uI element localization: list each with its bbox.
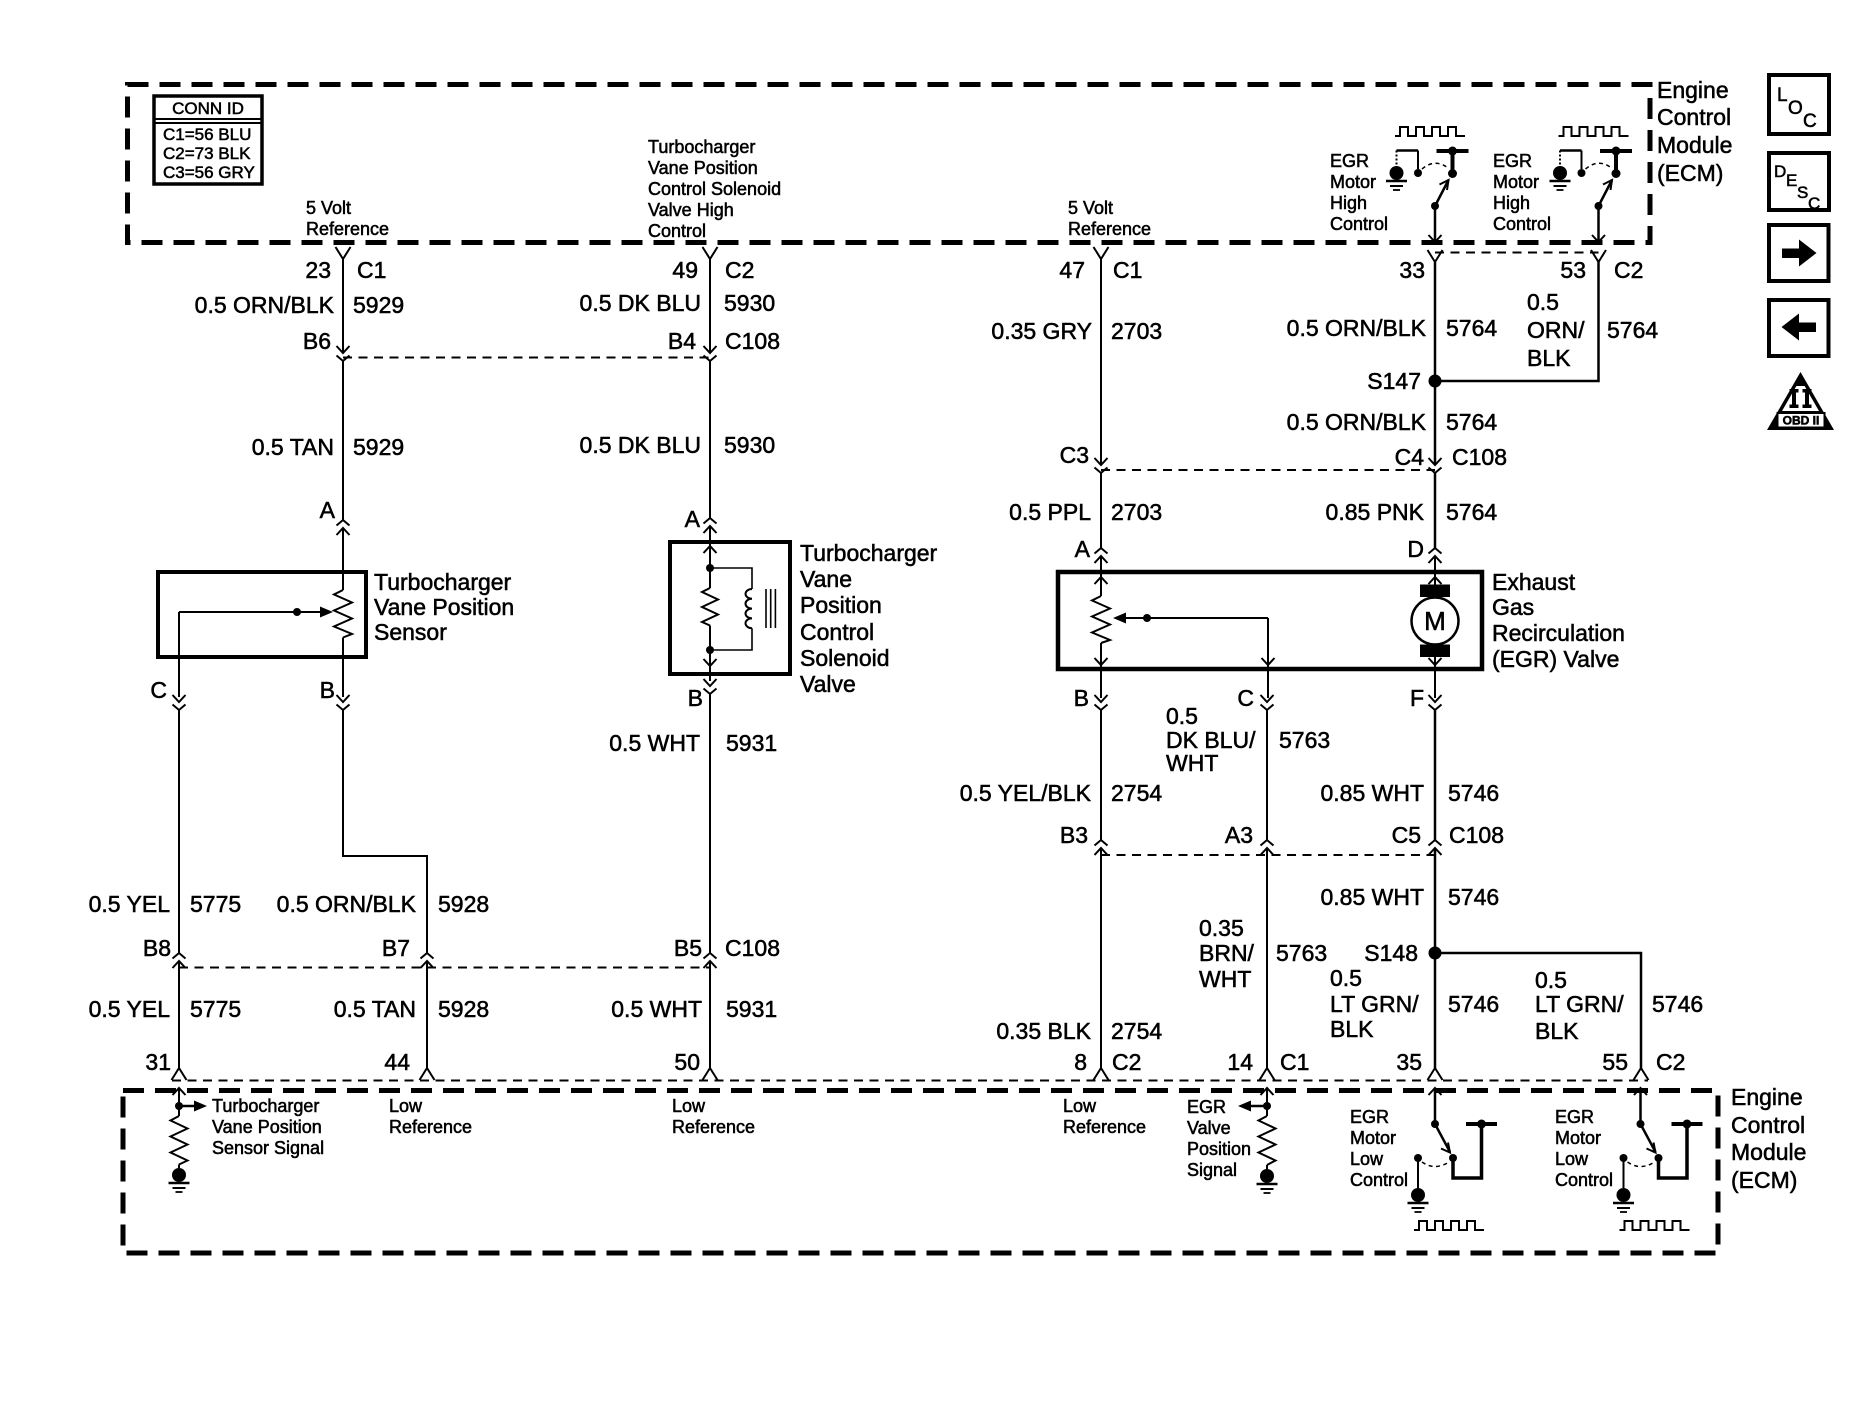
svg-text:S: S (1797, 183, 1808, 202)
svg-text:5764: 5764 (1446, 409, 1497, 435)
resistor: EGR position sensing element (1092, 596, 1110, 643)
wire label 0.5 DK BLU 5930 (lower) (580, 432, 776, 458)
svg-text:OBD II: OBD II (1783, 414, 1820, 428)
svg-text:0.5: 0.5 (1330, 965, 1362, 991)
svg-text:0.5: 0.5 (1166, 703, 1198, 729)
svg-text:0.85 WHT: 0.85 WHT (1320, 780, 1424, 806)
svg-text:0.5 YEL: 0.5 YEL (89, 996, 171, 1022)
svg-text:Gas: Gas (1492, 594, 1534, 620)
switch: EGR Motor Low Control driver (pin 35) (1408, 1088, 1498, 1230)
svg-text:Control Solenoid: Control Solenoid (648, 179, 781, 199)
svg-text:5931: 5931 (726, 996, 777, 1022)
wire 5746 WHT EGR F to C5 (1434, 710, 1437, 840)
pin label 55 C2 (1602, 1049, 1685, 1075)
terminal B of EGR valve (1095, 695, 1108, 710)
pin 47 C1 connector (1094, 247, 1109, 259)
splice label S147 (1367, 368, 1421, 394)
svg-text:C: C (1803, 111, 1817, 132)
svg-text:WHT: WHT (1166, 750, 1218, 776)
pin label 53 C2 (1560, 257, 1643, 283)
svg-text:C: C (150, 677, 167, 703)
svg-text:0.85 WHT: 0.85 WHT (1320, 884, 1424, 910)
terminal B of sensor (337, 695, 350, 710)
svg-text:D: D (1407, 536, 1424, 562)
terminal A of sensor (337, 520, 350, 535)
svg-text:C1: C1 (1113, 257, 1142, 283)
svg-text:5775: 5775 (190, 996, 241, 1022)
pin 49 C2 connector (703, 247, 718, 259)
svg-text:Motor: Motor (1555, 1128, 1601, 1148)
resistor: pin 31 pull-up (171, 1116, 188, 1165)
pin label 47 C1 (1059, 257, 1142, 283)
svg-text:C3=56 GRY: C3=56 GRY (163, 163, 255, 182)
label: Low Reference (pin 8) (1063, 1096, 1146, 1137)
wiper of sensor potentiometer (179, 607, 333, 618)
svg-text:0.5 TAN: 0.5 TAN (334, 996, 416, 1022)
svg-text:0.5 WHT: 0.5 WHT (611, 996, 702, 1022)
svg-text:0.5 DK BLU: 0.5 DK BLU (580, 290, 701, 316)
svg-text:Sensor: Sensor (374, 619, 447, 645)
wire 5931 WHT B5 to pin 50 (709, 961, 711, 1068)
svg-text:B3: B3 (1060, 822, 1088, 848)
svg-text:0.5 ORN/BLK: 0.5 ORN/BLK (277, 891, 417, 917)
svg-text:Low: Low (1350, 1149, 1384, 1169)
svg-text:(EGR) Valve: (EGR) Valve (1492, 646, 1619, 672)
wire 5775 YEL sensor C to B8 (178, 710, 180, 953)
svg-text:5746: 5746 (1448, 780, 1499, 806)
svg-text:A: A (685, 506, 701, 532)
connector label B4 C108 (668, 328, 780, 354)
svg-text:Control: Control (800, 619, 874, 645)
wire 2703 PPL C3 to EGR A (1100, 473, 1102, 548)
label: Low Reference (pin 44) (389, 1096, 472, 1137)
svg-text:49: 49 (672, 257, 698, 283)
svg-text:44: 44 (384, 1049, 410, 1075)
svg-text:Low: Low (672, 1096, 706, 1116)
pin 14 connector (1260, 1068, 1275, 1080)
svg-text:Control: Control (648, 221, 706, 241)
label: Engine Control Module (ECM) bottom right (1731, 1084, 1806, 1193)
svg-text:Position: Position (800, 592, 882, 618)
svg-text:5764: 5764 (1446, 499, 1497, 525)
label: EGR Motor Low Control (pin 55) (1555, 1107, 1613, 1190)
svg-text:Exhaust: Exhaust (1492, 569, 1576, 595)
wire EGR A internal (1095, 556, 1108, 596)
svg-text:B8: B8 (143, 935, 171, 961)
wire 2754 BLK B3 to pin 8 (1100, 848, 1102, 1068)
wire label 0.5 DK BLU/WHT 5763 (1166, 703, 1330, 776)
svg-text:8: 8 (1074, 1049, 1087, 1075)
svg-text:Engine: Engine (1731, 1084, 1803, 1110)
connector C108 B8 (173, 953, 186, 968)
svg-text:Signal: Signal (1187, 1160, 1237, 1180)
svg-text:BLK: BLK (1527, 345, 1571, 371)
svg-text:50: 50 (674, 1049, 700, 1075)
svg-text:EGR: EGR (1350, 1107, 1389, 1127)
svg-text:C1=56 BLU: C1=56 BLU (163, 125, 251, 144)
svg-text:B: B (688, 685, 703, 711)
component box: Turbocharger Vane Position Sensor (158, 572, 366, 657)
svg-text:C: C (1237, 685, 1254, 711)
connector label B7 (382, 935, 410, 961)
wire 5764 PNK C4 to EGR D (1434, 473, 1437, 548)
connector C108 dashed link B6-B4 (343, 357, 710, 359)
wire label 0.5 YEL 5775 (lower) (89, 996, 242, 1022)
wire label 0.5 LT GRN/BLK 5746 (pin 55) (1535, 967, 1703, 1044)
svg-text:5746: 5746 (1448, 991, 1499, 1017)
svg-text:55: 55 (1602, 1049, 1628, 1075)
svg-text:B7: B7 (382, 935, 410, 961)
svg-text:L: L (1777, 85, 1788, 106)
svg-text:LT GRN/: LT GRN/ (1535, 991, 1624, 1017)
svg-text:High: High (1330, 193, 1367, 213)
icon: OBD II triangle (1767, 372, 1834, 430)
switch: EGR Motor High Control driver (pin 33) (1386, 127, 1469, 242)
wire into sensor A (342, 528, 344, 590)
svg-text:Reference: Reference (1068, 219, 1151, 239)
label: EGR Motor Low Control (pin 35) (1350, 1107, 1408, 1190)
svg-text:Reference: Reference (672, 1117, 755, 1137)
svg-text:Vane Position: Vane Position (374, 594, 514, 620)
wire label 0.5 WHT 5931 (lower) (611, 996, 777, 1022)
splice S147 (1429, 375, 1442, 388)
wire label 0.85 WHT 5746 (lower) (1320, 884, 1499, 910)
connector label B8 (143, 935, 171, 961)
wire label 0.5 YEL/BLK 2754 (960, 780, 1163, 806)
switch: EGR Motor High Control driver (pin 53) (1550, 127, 1633, 242)
svg-text:5775: 5775 (190, 891, 241, 917)
svg-text:Position: Position (1187, 1139, 1251, 1159)
wire solenoid to terminal B (704, 650, 717, 681)
svg-text:M: M (1424, 606, 1446, 636)
terminal B of solenoid valve (704, 679, 717, 694)
wire EGR wiper to terminal C (1262, 618, 1275, 698)
icon: DESC box (1769, 153, 1829, 213)
svg-text:Engine: Engine (1657, 77, 1729, 103)
connector C108 B4 (704, 346, 717, 361)
resistor: solenoid internal (702, 568, 718, 650)
svg-text:Control: Control (1731, 1112, 1805, 1138)
terminal label A (solenoid) (685, 506, 701, 532)
pin label 49 C2 (672, 257, 754, 283)
wire sensor wiper to terminal C (178, 612, 180, 697)
resistor: sensor element (334, 590, 352, 638)
svg-text:0.5 PPL: 0.5 PPL (1009, 499, 1091, 525)
svg-text:C3: C3 (1060, 442, 1089, 468)
svg-text:Reference: Reference (389, 1117, 472, 1137)
svg-text:B6: B6 (303, 328, 331, 354)
svg-text:BLK: BLK (1535, 1018, 1579, 1044)
splice S148 (1429, 947, 1442, 960)
connector C108 dashed link B8-B7-B5 (179, 967, 710, 969)
connector label A3 (1225, 822, 1253, 848)
svg-text:5746: 5746 (1652, 991, 1703, 1017)
wire 5763 BRN/WHT A3 to pin 14 (1266, 848, 1268, 1068)
ground at pin 31 resistor (169, 1165, 190, 1193)
label: Turbocharger Vane Position Control Solenoid Valve (800, 540, 938, 697)
svg-text:Valve High: Valve High (648, 200, 734, 220)
wire label 0.5 YEL 5775 (upper) (89, 891, 242, 917)
svg-text:5929: 5929 (353, 292, 404, 318)
svg-text:C2=73 BLK: C2=73 BLK (163, 144, 251, 163)
terminal C of sensor (173, 695, 186, 710)
pin 31 connector (172, 1068, 187, 1080)
wire 5930 DK BLU pin49 to B4 (709, 259, 711, 353)
svg-text:Turbocharger: Turbocharger (374, 569, 512, 595)
svg-text:EGR: EGR (1493, 151, 1532, 171)
connector C108 B3 (1095, 840, 1108, 855)
connector label B6 (303, 328, 331, 354)
terminal label F (EGR) (1410, 685, 1424, 711)
wire 5763 DK BLU/WHT EGR C to A3 (1266, 710, 1268, 840)
connector label C4 C108 (1395, 444, 1507, 470)
wire 5928 TAN B7 to pin 44 (426, 961, 428, 1068)
connector C108 dashed link B3-A3-C5 (1101, 854, 1435, 856)
svg-text:5 Volt: 5 Volt (1068, 198, 1113, 218)
svg-text:E: E (1786, 171, 1797, 190)
pin label 35 (1396, 1049, 1422, 1075)
svg-text:S147: S147 (1367, 368, 1421, 394)
wire label 0.5 DK BLU 5930 (upper) (580, 290, 776, 316)
wire label 0.5 PPL 2703 (1009, 499, 1162, 525)
wire label 0.5 ORN/BLK 5929 (195, 292, 405, 318)
pin label 33 (1399, 257, 1425, 283)
motor M of EGR valve (1412, 556, 1459, 698)
connector C108 C3 (1095, 458, 1108, 473)
svg-text:Turbocharger: Turbocharger (800, 540, 938, 566)
svg-text:B5: B5 (674, 935, 702, 961)
wire 2754 YEL/BLK EGR B to B3 (1100, 710, 1102, 840)
svg-text:D: D (1774, 162, 1786, 181)
svg-text:B: B (320, 677, 335, 703)
svg-text:Motor: Motor (1350, 1128, 1396, 1148)
svg-text:Reference: Reference (306, 219, 389, 239)
svg-text:5764: 5764 (1446, 315, 1497, 341)
svg-text:Module: Module (1657, 132, 1732, 158)
pin label 14 C1 (1227, 1049, 1309, 1075)
svg-text:5764: 5764 (1607, 317, 1658, 343)
svg-text:A: A (1075, 536, 1091, 562)
ECM input: EGR Valve Position Signal (pin 14) (1238, 1088, 1274, 1116)
svg-text:C108: C108 (725, 935, 780, 961)
pin 8 connector (1094, 1068, 1109, 1080)
svg-text:C108: C108 (1452, 444, 1507, 470)
svg-text:2754: 2754 (1111, 780, 1162, 806)
wire label 0.35 BLK 2754 (996, 1018, 1162, 1044)
svg-text:BLK: BLK (1330, 1016, 1374, 1042)
svg-text:35: 35 (1396, 1049, 1422, 1075)
svg-text:5763: 5763 (1276, 940, 1327, 966)
wire label 0.35 GRY 2703 (991, 318, 1162, 344)
wire label 0.5 TAN 5928 (334, 996, 489, 1022)
ground at pin 14 resistor (1257, 1165, 1278, 1193)
pin label 23 C1 (305, 257, 386, 283)
connector C108 B7 (421, 953, 434, 968)
icon: LOC box (1769, 75, 1829, 134)
svg-text:Vane Position: Vane Position (212, 1117, 322, 1137)
svg-text:LT GRN/: LT GRN/ (1330, 991, 1419, 1017)
terminal label C (EGR) (1237, 685, 1254, 711)
connector label C3 (1060, 442, 1089, 468)
svg-text:S148: S148 (1364, 940, 1418, 966)
label: EGR Valve Position Signal (1187, 1097, 1251, 1180)
ECM top dashed box (128, 85, 1651, 243)
svg-text:0.5 ORN/BLK: 0.5 ORN/BLK (1287, 409, 1427, 435)
label: Turbocharger Vane Position Sensor (374, 569, 514, 645)
connector C108 B5 (704, 953, 717, 968)
ECM bottom dashed box (123, 1091, 1718, 1254)
bottom connector dashed link (172, 1080, 1648, 1082)
connector C108 dashed link C3-C4 (1101, 469, 1435, 471)
svg-text:Recirculation: Recirculation (1492, 620, 1625, 646)
svg-text:0.5: 0.5 (1527, 289, 1559, 315)
component box: Exhaust Gas Recirculation (EGR) Valve (1058, 572, 1482, 669)
svg-text:0.5 YEL/BLK: 0.5 YEL/BLK (960, 780, 1092, 806)
svg-text:Low: Low (389, 1096, 423, 1116)
wire sensor resistor to terminal B (342, 638, 344, 698)
svg-text:Turbocharger: Turbocharger (648, 137, 755, 157)
svg-text:0.5 DK BLU: 0.5 DK BLU (580, 432, 701, 458)
pin 35 connector (1428, 1068, 1443, 1080)
pin label 8 C2 (1074, 1049, 1141, 1075)
connector C2 dashed link 33-53 (1435, 252, 1599, 254)
wire 5775 YEL B8 to pin 31 (178, 961, 180, 1068)
wire 5746 LT GRN/BLK S148 to pin 55 (1435, 953, 1641, 1068)
svg-text:C: C (1808, 194, 1820, 213)
svg-text:Control: Control (1555, 1170, 1613, 1190)
switch: EGR Motor Low Control driver (pin 55) (1613, 1088, 1703, 1230)
svg-text:5930: 5930 (724, 432, 775, 458)
svg-text:B4: B4 (668, 328, 696, 354)
svg-text:5 Volt: 5 Volt (306, 198, 351, 218)
svg-text:Control: Control (1330, 214, 1388, 234)
svg-text:0.5 ORN/BLK: 0.5 ORN/BLK (1287, 315, 1427, 341)
icon: forward arrow box (1769, 225, 1829, 281)
svg-text:C2: C2 (1112, 1049, 1141, 1075)
wire label 0.85 PNK 5764 (1326, 499, 1498, 525)
svg-text:EGR: EGR (1330, 151, 1369, 171)
svg-text:C2: C2 (1614, 257, 1643, 283)
svg-text:F: F (1410, 685, 1424, 711)
svg-text:14: 14 (1227, 1049, 1253, 1075)
svg-text:2754: 2754 (1111, 1018, 1162, 1044)
svg-text:Control: Control (1493, 214, 1551, 234)
svg-text:Motor: Motor (1493, 172, 1539, 192)
connector label C5 C108 (1392, 822, 1504, 848)
svg-text:0.35 GRY: 0.35 GRY (991, 318, 1092, 344)
svg-text:High: High (1493, 193, 1530, 213)
svg-text:2703: 2703 (1111, 318, 1162, 344)
svg-text:Control: Control (1657, 104, 1731, 130)
terminal A of solenoid valve (704, 518, 717, 533)
connector label B3 (1060, 822, 1088, 848)
resistor: pin 14 pull-up (1259, 1116, 1276, 1165)
inductor: solenoid coil with core (706, 568, 775, 654)
svg-text:C2: C2 (1656, 1049, 1685, 1075)
svg-text:Vane Position: Vane Position (648, 158, 758, 178)
svg-text:(ECM): (ECM) (1657, 160, 1723, 186)
svg-text:5931: 5931 (726, 730, 777, 756)
wire 5931 WHT solenoid B to B5 (709, 694, 711, 953)
svg-text:5928: 5928 (438, 996, 489, 1022)
svg-text:C1: C1 (357, 257, 386, 283)
svg-text:EGR: EGR (1555, 1107, 1594, 1127)
svg-text:ORN/: ORN/ (1527, 317, 1585, 343)
wire label 0.5 ORN/BLK 5764 (upper) (1287, 315, 1498, 341)
wire label 0.5 ORN/BLK 5764 (lower) (1287, 409, 1498, 435)
wire 53 ORN/BLK to S147 (1435, 262, 1599, 381)
wire 5929 TAN B6 to sensor A (342, 361, 344, 520)
svg-text:0.5 ORN/BLK: 0.5 ORN/BLK (195, 292, 335, 318)
svg-text:Low: Low (1555, 1149, 1589, 1169)
label: Turbocharger Vane Position Sensor Signal (212, 1096, 324, 1158)
wire label 0.85 WHT 5746 (upper) (1320, 780, 1499, 806)
label: Turbocharger Vane Position Control Solenoid Valve High Control (648, 137, 781, 241)
label: EGR Motor High Control (right) (1493, 151, 1551, 234)
svg-text:Sensor Signal: Sensor Signal (212, 1138, 324, 1158)
svg-text:A: A (320, 497, 336, 523)
terminal label D (EGR) (1407, 536, 1424, 562)
svg-text:31: 31 (145, 1049, 171, 1075)
svg-text:Motor: Motor (1330, 172, 1376, 192)
terminal label A (EGR) (1075, 536, 1091, 562)
svg-text:O: O (1788, 98, 1803, 119)
wiper of EGR potentiometer (1113, 613, 1268, 624)
splice label S148 (1364, 940, 1418, 966)
pin 33 connector (1428, 250, 1443, 262)
pin 23 C1 connector (336, 247, 351, 259)
svg-text:0.5: 0.5 (1535, 967, 1567, 993)
svg-text:23: 23 (305, 257, 331, 283)
wire 5764 ORN/BLK S147 to C4 (1434, 381, 1437, 465)
terminal A of EGR valve (1095, 548, 1108, 563)
wire 33 ORN/BLK to S147 (1434, 262, 1437, 381)
label: Exhaust Gas Recirculation (EGR) Valve (1492, 569, 1625, 672)
terminal F of EGR valve (1429, 695, 1442, 710)
svg-text:A3: A3 (1225, 822, 1253, 848)
connector C108 A3 (1261, 840, 1274, 855)
connector label B5 C108 (674, 935, 780, 961)
icon: back arrow box (1769, 300, 1829, 356)
svg-text:0.5 TAN: 0.5 TAN (252, 434, 334, 460)
wire label 0.5 LT GRN/BLK 5746 (pin 35) (1330, 965, 1499, 1042)
svg-text:0.85 PNK: 0.85 PNK (1326, 499, 1425, 525)
wire 5928 ORN/BLK sensor B to B7 (with jog) (343, 710, 427, 953)
svg-text:C1: C1 (1280, 1049, 1309, 1075)
pin 50 connector (703, 1068, 718, 1080)
wire label 0.5 WHT 5931 (upper) (609, 730, 777, 756)
svg-text:Vane: Vane (800, 566, 852, 592)
terminal C of EGR valve (1261, 695, 1274, 710)
svg-text:33: 33 (1399, 257, 1425, 283)
svg-text:C108: C108 (1449, 822, 1504, 848)
svg-text:C108: C108 (725, 328, 780, 354)
svg-text:B: B (1074, 685, 1089, 711)
label: Engine Control Module (ECM) top right (1657, 77, 1732, 186)
pin 44 connector (420, 1068, 435, 1080)
svg-text:5928: 5928 (438, 891, 489, 917)
wire 5929 ORN/BLK pin23 to B6 (342, 259, 344, 353)
svg-text:CONN ID: CONN ID (172, 99, 244, 118)
svg-text:0.35 BLK: 0.35 BLK (996, 1018, 1091, 1044)
svg-text:5929: 5929 (353, 434, 404, 460)
terminal label C (sensor) (150, 677, 167, 703)
svg-text:EGR: EGR (1187, 1097, 1226, 1117)
svg-text:0.35: 0.35 (1199, 915, 1244, 941)
wire 5930 DK BLU B4 to solenoid A (709, 361, 711, 518)
svg-text:WHT: WHT (1199, 966, 1251, 992)
svg-text:0.5 YEL: 0.5 YEL (89, 891, 171, 917)
